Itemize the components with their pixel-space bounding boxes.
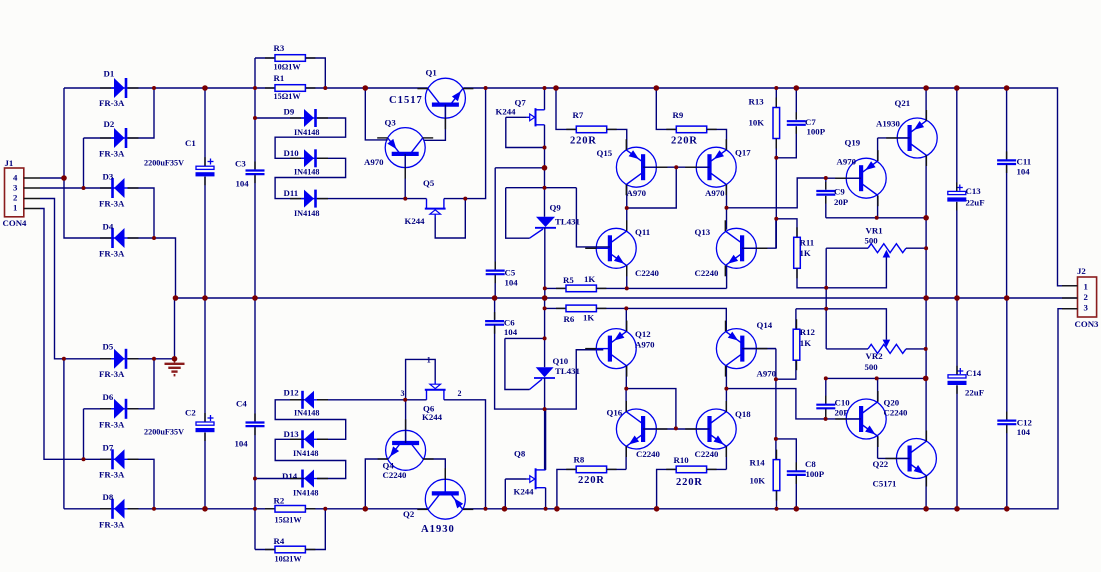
wire C2 bottom lead — [204, 432, 206, 508]
wire pin2 vertical to D8 — [63, 359, 65, 509]
wire R3 right lead — [305, 58, 325, 88]
wire R4 left vertical — [254, 509, 256, 550]
wire Q3 base node to Q5 — [405, 198, 426, 200]
junction — [202, 85, 208, 91]
resistor R4 10ohm1W — [275, 546, 305, 553]
svg-text:R1: R1 — [274, 73, 285, 83]
wire R8 right — [607, 468, 627, 470]
svg-text:Q4: Q4 — [383, 460, 395, 470]
svg-text:3: 3 — [13, 183, 18, 193]
svg-text:500: 500 — [865, 236, 879, 246]
diode D12 — [301, 391, 317, 409]
wire D10 to D11 — [275, 158, 346, 198]
wire -V rail to J2 pin 3 — [463, 309, 1078, 509]
svg-text:3: 3 — [401, 389, 405, 398]
wire Q9 ref loop — [506, 188, 530, 239]
resistor R7 220R — [576, 126, 606, 133]
junction — [62, 357, 66, 361]
wire R3 left lead — [255, 57, 275, 59]
wire R4 right lead — [305, 509, 325, 550]
svg-text:IN4148: IN4148 — [294, 128, 319, 137]
capacitor C6 104 — [485, 321, 504, 325]
wire Q22 base — [878, 457, 910, 459]
wire R14 bottom to rail — [776, 491, 778, 509]
wire Q14 base corner — [742, 348, 776, 350]
wire VR2 left terminal — [826, 348, 868, 350]
svg-text:K244: K244 — [514, 487, 535, 497]
svg-text:IN4148: IN4148 — [293, 449, 318, 458]
wire C10 top lead — [825, 378, 827, 404]
junction — [542, 295, 548, 301]
pin J2-1 stub — [1062, 285, 1078, 287]
wire D5 cathode to ground node — [128, 358, 175, 360]
wire rail to R9 — [656, 88, 676, 129]
svg-text:IN4148: IN4148 — [294, 209, 319, 218]
svg-text:Q17: Q17 — [735, 148, 751, 158]
wire Q12 emitter up — [625, 308, 627, 331]
junction — [923, 295, 929, 301]
svg-text:C10: C10 — [835, 398, 851, 408]
wire Q15 Q17 bases — [643, 166, 709, 168]
wire Q20 collector to output — [877, 378, 879, 401]
wire Q16 emitter to R8 — [625, 446, 627, 469]
svg-text:FR-3A: FR-3A — [99, 519, 125, 529]
resistor R2 15ohm1W — [275, 506, 305, 513]
svg-text:C5: C5 — [505, 268, 516, 278]
wire Q18 emitter to R10 — [725, 446, 727, 469]
wire R4 left lead — [255, 549, 275, 551]
svg-text:Q14: Q14 — [757, 320, 773, 330]
trimmer VR2 500 — [868, 340, 906, 354]
svg-text:Q20: Q20 — [884, 398, 900, 408]
junction — [724, 387, 728, 391]
wire bias node to Q6 — [404, 399, 427, 401]
capacitor C11 104 — [997, 160, 1016, 164]
svg-text:CON3: CON3 — [1075, 319, 1100, 329]
junction — [403, 398, 407, 402]
svg-text:15Ω1W: 15Ω1W — [275, 515, 303, 524]
ground symbol — [165, 359, 185, 375]
wire rail to R7 — [556, 88, 576, 129]
svg-text:R13: R13 — [749, 97, 765, 107]
transistor Q18 C2240 NPN — [696, 409, 736, 449]
resistor R14 10K — [773, 460, 780, 491]
wire R9 to Q17 emitter — [707, 129, 727, 150]
junction — [253, 507, 257, 511]
junction — [924, 347, 928, 351]
capacitor C3 104 — [246, 171, 265, 175]
pin J1-1 stub — [24, 208, 40, 210]
wire C8 to -V rail — [795, 475, 797, 509]
plus sign — [957, 368, 963, 374]
junction — [794, 506, 800, 512]
junction — [774, 377, 778, 381]
junction — [543, 336, 547, 340]
svg-text:D13: D13 — [284, 429, 300, 439]
wire J1 pin3 to D3 — [40, 187, 114, 189]
diode D13 — [301, 430, 317, 448]
junction — [463, 197, 467, 201]
svg-text:A1930: A1930 — [876, 119, 901, 129]
junction — [152, 507, 156, 511]
wire Q6 gate loop — [406, 359, 436, 399]
wire VR2 left loop up — [825, 309, 827, 349]
wire mid output rail to J2 pin 2 — [176, 297, 1078, 299]
junction — [323, 86, 327, 90]
junction — [774, 437, 778, 441]
svg-text:C2240: C2240 — [695, 449, 720, 459]
wire Q9 anode to mid rail — [544, 228, 546, 298]
junction — [492, 295, 498, 301]
svg-text:2200uF35V: 2200uF35V — [144, 158, 184, 167]
wire -V rail to R8 — [557, 469, 576, 508]
diode D8 — [111, 499, 128, 519]
wire C3 top lead — [254, 88, 256, 170]
wire D6 cathode join — [128, 359, 155, 409]
svg-text:VR1: VR1 — [866, 226, 883, 236]
svg-text:Q22: Q22 — [873, 459, 889, 469]
shunt regulator Q9 TL431 — [530, 217, 557, 238]
wire C6 bottom link — [495, 325, 545, 409]
junction — [403, 197, 407, 201]
svg-text:C2: C2 — [185, 408, 196, 418]
wire VR2 wiper link — [826, 309, 886, 340]
junction — [253, 477, 257, 481]
wire D12 to bias node — [317, 399, 404, 401]
svg-text:220R: 220R — [676, 477, 703, 488]
junction — [61, 175, 67, 181]
wire R14 top vertical — [775, 349, 777, 460]
svg-text:C2240: C2240 — [636, 449, 661, 459]
wire Q16 collector up — [625, 389, 627, 412]
junction — [794, 85, 800, 91]
transistor Q3 A970 PNP — [385, 128, 425, 168]
jfet Q6 K244 — [425, 381, 446, 400]
svg-text:100P: 100P — [807, 126, 826, 136]
resistor R12 1K — [793, 329, 800, 360]
wire C10 to output line — [826, 377, 926, 379]
wire D6 anode vertical — [83, 409, 85, 460]
svg-text:1K: 1K — [583, 313, 594, 323]
wire Q5 gate loop — [435, 199, 465, 238]
wire D3 anode join — [128, 188, 155, 238]
transistor Q4 C2240 NPN — [386, 430, 426, 470]
svg-text:104: 104 — [1017, 167, 1031, 177]
junction — [674, 426, 678, 430]
wire -V rail left of D8 — [64, 508, 114, 510]
svg-text:C1517: C1517 — [389, 95, 423, 106]
wire Q7 drain — [544, 88, 546, 110]
connector J2 CON3 — [1078, 277, 1097, 317]
diode D4 — [111, 228, 128, 248]
wire R7 to Q15 emitter — [607, 129, 627, 150]
svg-text:IN4148: IN4148 — [294, 409, 319, 418]
svg-text:2: 2 — [1084, 292, 1089, 302]
svg-text:104: 104 — [504, 327, 518, 337]
wire divider to R11 — [776, 219, 797, 238]
wire C5 top link — [495, 167, 544, 169]
wire +V rail R1 to Q1 — [306, 87, 428, 89]
wire Q19 emitter to Q21 base — [877, 138, 879, 161]
svg-text:A970: A970 — [757, 369, 777, 379]
wire mid rail down to Q10 — [544, 298, 546, 367]
wire TL431 to Q11 base — [576, 188, 610, 247]
svg-text:220R: 220R — [570, 135, 597, 146]
shunt regulator Q10 TL431 — [530, 367, 556, 389]
svg-text:Q9: Q9 — [550, 202, 562, 212]
transistor Q13 C2240 NPN — [716, 228, 756, 268]
wire divider to C8 — [776, 439, 796, 471]
junction — [253, 116, 257, 120]
resistor R13 10K — [773, 108, 780, 139]
wire ref node to Q12 base — [545, 350, 604, 409]
junction — [875, 216, 879, 220]
wire Q20 emitter to Q22 base — [877, 436, 879, 458]
transistor Q11 C2240 NPN — [596, 228, 636, 268]
junction — [654, 506, 660, 512]
trimmer VR1 500 — [868, 244, 906, 258]
wire C12 top lead — [1006, 298, 1008, 420]
junction — [543, 306, 547, 310]
wire Q8 drain to -V rail — [545, 488, 547, 509]
svg-text:2200uF35V: 2200uF35V — [144, 428, 184, 437]
junction — [674, 165, 678, 169]
svg-text:R11: R11 — [800, 238, 815, 248]
junction — [923, 85, 929, 91]
pin J1-4 stub — [24, 177, 40, 179]
wire D11 to Q3 base node — [317, 198, 405, 200]
svg-text:500: 500 — [865, 362, 879, 372]
junction — [253, 86, 257, 90]
wire R3 left vertical — [254, 58, 256, 88]
svg-text:Q3: Q3 — [385, 118, 397, 128]
svg-text:Q5: Q5 — [423, 178, 435, 188]
svg-text:K244: K244 — [422, 412, 443, 422]
wire Q1 base to Q3 collector — [424, 105, 446, 141]
junction — [543, 146, 547, 150]
capacitor C12 104 — [997, 421, 1016, 425]
wire -V rail D8 to Q2 — [128, 508, 428, 510]
wire +V rail D1 to R1 — [128, 87, 276, 89]
wire Q13 emitter down — [726, 266, 728, 289]
junction — [654, 85, 660, 91]
wire Q8 gate to -V rail — [504, 479, 506, 509]
transistor Q17 A970 PNP — [696, 147, 736, 187]
svg-text:104: 104 — [236, 179, 250, 189]
svg-text:C8: C8 — [805, 459, 816, 469]
wire +V rail to J2 pin 1 — [463, 88, 1077, 286]
wire Q4 emitter to raw -V — [365, 459, 388, 509]
transistor Q2 A1930 PNP — [425, 479, 465, 519]
wire C9 to output line — [826, 217, 926, 219]
wire C3 bottom lead — [254, 174, 256, 298]
svg-text:15Ω1W: 15Ω1W — [274, 92, 302, 101]
capacitor C14 22uF — [948, 375, 967, 385]
svg-text:Q19: Q19 — [845, 138, 861, 148]
pin stubs — [100, 87, 111, 89]
svg-text:C2240: C2240 — [884, 408, 909, 418]
junction — [625, 286, 629, 290]
junction — [542, 165, 548, 171]
transistor Q16 C2240 NPN — [616, 409, 656, 449]
svg-text:Q2: Q2 — [403, 509, 415, 519]
pin J2-3 stub — [1062, 308, 1078, 310]
wire Q10 to Q8 — [544, 378, 546, 470]
svg-text:A970: A970 — [627, 188, 647, 198]
junction — [725, 206, 729, 210]
svg-text:A970: A970 — [837, 157, 857, 167]
resistor R1 15ohm1W — [275, 85, 305, 92]
svg-text:1K: 1K — [800, 248, 811, 258]
wire pin3 vertical to D2 — [83, 138, 85, 188]
wire rail to C7 — [795, 88, 797, 120]
wire base link down — [627, 167, 677, 208]
svg-text:Q12: Q12 — [635, 329, 651, 339]
wire C7 to R13 node — [776, 126, 796, 157]
junction — [954, 506, 960, 512]
wire C14 bottom lead — [956, 385, 958, 509]
svg-text:R5: R5 — [563, 275, 574, 285]
svg-text:1: 1 — [1084, 281, 1088, 291]
svg-text:Q21: Q21 — [895, 98, 911, 108]
svg-text:104: 104 — [1017, 427, 1031, 437]
junction — [774, 86, 778, 90]
svg-text:R4: R4 — [274, 536, 285, 546]
diode D6 — [111, 399, 128, 419]
svg-text:D5: D5 — [103, 341, 114, 351]
pin J1-2 stub — [24, 198, 40, 200]
capacitor C4 104 — [246, 423, 265, 427]
plus sign — [957, 185, 963, 191]
svg-text:10Ω1W: 10Ω1W — [274, 63, 302, 72]
junction — [824, 307, 828, 311]
wire VAS bottom to Q20 base — [726, 389, 825, 419]
capacitor C7 100P — [787, 121, 806, 125]
transistor Q21 A1930 PNP — [897, 118, 937, 158]
svg-text:22uF: 22uF — [965, 388, 984, 398]
svg-text:R9: R9 — [673, 110, 684, 120]
svg-text:C6: C6 — [504, 317, 515, 327]
capacitor C9 20P — [816, 191, 835, 195]
wire bias node crossing to lower half — [825, 288, 827, 309]
svg-text:1K: 1K — [800, 338, 811, 348]
diode D11 — [301, 190, 317, 208]
diode D2 — [111, 128, 128, 148]
junction — [173, 295, 179, 301]
svg-text:C2240: C2240 — [635, 268, 660, 278]
svg-text:R2: R2 — [274, 496, 285, 506]
svg-text:1K: 1K — [584, 274, 595, 284]
wire R5 to emitters — [596, 287, 726, 289]
svg-text:220R: 220R — [671, 135, 698, 146]
transistor Q19 A970 PNP — [846, 158, 886, 198]
svg-text:C11: C11 — [1017, 157, 1032, 167]
wire J1 pin2 to D5 — [40, 199, 114, 359]
wire Q9 ref node to Q11 base — [506, 187, 577, 189]
svg-text:IN4148: IN4148 — [293, 488, 318, 497]
wire Q10 ref loop — [505, 338, 530, 389]
wire output line to Q22 collector — [925, 298, 927, 441]
svg-text:R12: R12 — [800, 327, 816, 337]
wire C13 bottom lead — [956, 202, 958, 298]
junction — [924, 246, 928, 250]
transistor Q14 A970 PNP — [716, 329, 756, 369]
capacitor C10 20P — [816, 405, 835, 409]
pin J2-2 stub — [1062, 297, 1078, 299]
svg-text:C1: C1 — [185, 138, 196, 148]
svg-text:Q13: Q13 — [695, 227, 711, 237]
junction — [543, 86, 547, 90]
svg-text:Q7: Q7 — [515, 97, 527, 107]
wire rail to Q21 emitter — [925, 88, 927, 121]
svg-text:22uF: 22uF — [966, 198, 985, 208]
resistor R5 1K — [566, 285, 596, 292]
svg-text:D3: D3 — [103, 171, 114, 181]
svg-text:10K: 10K — [749, 118, 765, 128]
wire Q11 emitter down — [626, 266, 628, 289]
wire Q9 node to R5 — [545, 287, 566, 289]
svg-text:3: 3 — [1084, 302, 1089, 312]
wire to D6 anode — [84, 408, 115, 410]
svg-text:VR2: VR2 — [866, 351, 884, 361]
resistor R9 220R — [676, 126, 706, 133]
wire Q18 collector up — [725, 389, 727, 412]
junction — [954, 295, 960, 301]
svg-text:R7: R7 — [573, 110, 584, 120]
capacitor C2 2200uF35V — [196, 422, 215, 432]
svg-text:A970: A970 — [364, 157, 384, 167]
svg-text:FR-3A: FR-3A — [99, 419, 125, 429]
wire Q7 source down to Q9 — [544, 125, 546, 217]
junction — [624, 387, 628, 391]
wire Q7 gate — [506, 116, 527, 118]
wire R10 right — [707, 468, 727, 470]
svg-text:C3: C3 — [235, 159, 246, 169]
junction — [152, 236, 156, 240]
wire Q10 ref to cathode node — [505, 337, 545, 339]
svg-text:FR-3A: FR-3A — [99, 248, 125, 258]
wire Q17 collector to Q13 collector — [726, 185, 728, 230]
wire C14 top lead — [956, 298, 958, 375]
wire D7 anode to -V rail — [128, 459, 155, 509]
svg-text:D8: D8 — [103, 492, 114, 502]
junction — [543, 286, 547, 290]
svg-text:FR-3A: FR-3A — [99, 369, 125, 379]
svg-text:R10: R10 — [674, 455, 690, 465]
junction — [824, 376, 828, 380]
svg-text:10Ω1W: 10Ω1W — [275, 555, 303, 564]
svg-text:D1: D1 — [104, 68, 115, 78]
wire Q12 collector down — [625, 366, 627, 389]
wire Q14 base to divider — [742, 348, 776, 350]
wire Q16 Q18 bases — [643, 428, 709, 430]
svg-text:D6: D6 — [103, 392, 114, 402]
junction — [82, 186, 86, 190]
svg-text:R8: R8 — [574, 455, 585, 465]
svg-text:100P: 100P — [806, 469, 825, 479]
wire VR1 left terminal — [826, 247, 868, 249]
junction — [363, 506, 369, 512]
wire R13 bottom / Q13 base vertical — [775, 139, 777, 249]
svg-text:Q15: Q15 — [597, 148, 613, 158]
svg-text:D12: D12 — [284, 388, 300, 398]
wire C11 top lead — [1006, 88, 1008, 160]
diode D14 — [301, 470, 317, 488]
wire mid rail to ground node — [174, 298, 176, 359]
svg-text:K244: K244 — [496, 107, 517, 117]
wire VR1 left loop down — [825, 248, 827, 288]
wire VR1 right to output line — [906, 247, 926, 249]
